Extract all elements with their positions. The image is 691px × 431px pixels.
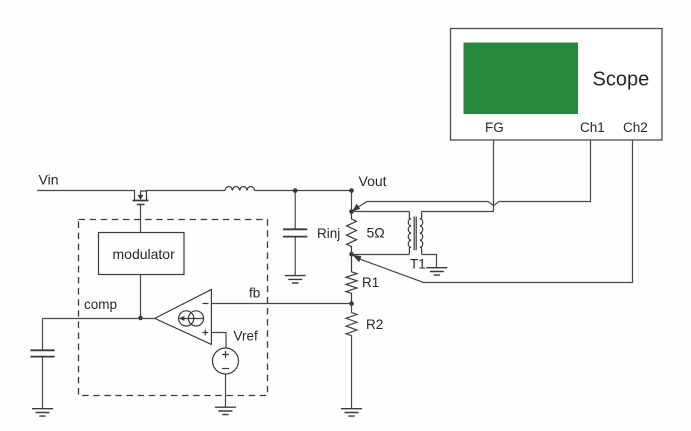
- svg-text:Ch2: Ch2: [623, 120, 648, 135]
- svg-text:T1: T1: [410, 257, 426, 272]
- capacitor Ccomp plates: [30, 350, 54, 356]
- capacitor Ccomp bottom lead: [42, 357, 44, 408]
- scope screen: [464, 43, 579, 115]
- op-amp plus input mark: [202, 330, 208, 336]
- wire Vout down to node B: [351, 191, 353, 212]
- svg-text:fb: fb: [249, 286, 260, 301]
- svg-text:Vref: Vref: [234, 329, 259, 344]
- node B injection top: [349, 209, 354, 214]
- wire FG down to T1 primary: [422, 140, 494, 212]
- svg-text:Rinj: Rinj: [317, 226, 340, 241]
- node comp: [138, 316, 143, 321]
- node Vout: [349, 188, 354, 193]
- wire R2 to ground: [351, 336, 353, 408]
- node C injection bottom: [349, 252, 354, 257]
- ground (comp cap): [32, 409, 53, 416]
- transistor Q1 (MOSFET switch): [133, 190, 149, 205]
- ground (Vref): [215, 407, 236, 414]
- wire gate to modulator: [140, 205, 142, 233]
- capacitor Cout top lead: [294, 191, 296, 230]
- source Vref circle: [213, 348, 239, 374]
- dashed control-loop box: [79, 220, 268, 396]
- transistor arrow: [138, 195, 144, 200]
- op-amp OTA symbol circles: [179, 311, 194, 326]
- capacitor Cout plates: [283, 229, 307, 236]
- transformer T1 left winding: [408, 212, 411, 255]
- ground (R2): [341, 409, 362, 416]
- svg-text:comp: comp: [84, 297, 117, 312]
- op-amp minus input mark: [203, 303, 209, 305]
- ground (output cap): [285, 276, 306, 283]
- wire modulator to comp node: [140, 275, 142, 319]
- resistor R2: [346, 304, 357, 337]
- capacitor Ccomp top lead: [42, 319, 44, 351]
- wire inductor to Vout node: [254, 190, 351, 192]
- svg-text:5Ω: 5Ω: [367, 225, 385, 241]
- inductor L: [225, 187, 254, 191]
- transformer T1 right winding: [420, 212, 423, 255]
- svg-text:Scope: Scope: [593, 69, 650, 91]
- wire Ch1 to node B: [355, 202, 489, 210]
- ground (T1): [426, 268, 447, 275]
- svg-text:Vout: Vout: [359, 173, 387, 189]
- probe arrow Ch1 at node B: [352, 204, 360, 212]
- op-amp U1 error amplifier: [155, 290, 212, 345]
- svg-text:modulator: modulator: [113, 246, 176, 262]
- wire fb rail: [212, 303, 352, 305]
- svg-text:Vin: Vin: [39, 172, 59, 188]
- wire Ch1 vertical: [499, 140, 591, 202]
- scope box: [451, 29, 663, 141]
- wire plus input to Vref: [212, 333, 227, 349]
- node fb divider: [349, 301, 354, 306]
- wire Vref to ground: [225, 374, 227, 407]
- wire node B to T1 left coil: [352, 211, 410, 213]
- wire node C to T1 left coil: [352, 254, 410, 256]
- svg-text:Ch1: Ch1: [580, 120, 605, 135]
- resistor R1: [346, 254, 357, 304]
- probe arrow Ch2 at node C: [352, 255, 361, 263]
- capacitor Cout bottom lead: [294, 238, 296, 276]
- op-amp OTA arrow line: [182, 318, 204, 320]
- resistor Rinj: [347, 212, 357, 255]
- node output-cap junction: [293, 188, 298, 193]
- svg-text:FG: FG: [485, 120, 504, 135]
- svg-text:R1: R1: [362, 275, 379, 290]
- transformer T1 core: [414, 217, 416, 251]
- modulator box: [99, 233, 185, 275]
- wire Ch2 down and left: [358, 140, 633, 283]
- wire T1 right bottom to ground: [422, 255, 437, 268]
- wire Ch1 hop over FG: [488, 202, 499, 206]
- wire comp rail: [43, 318, 155, 320]
- svg-text:R2: R2: [366, 317, 383, 332]
- Vref minus sign: [222, 368, 229, 370]
- wire Vin rail: [37, 190, 225, 192]
- Vref plus sign: [222, 351, 229, 358]
